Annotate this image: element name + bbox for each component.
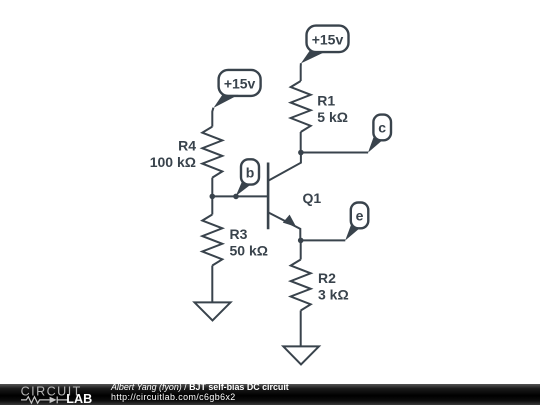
transistor Q1 (NPN) [268, 153, 301, 241]
resistor R3 [202, 215, 222, 266]
node junction (R4/R3/base) [210, 194, 216, 200]
node e junction (emitter) [298, 238, 304, 244]
wire: emitter node to e flag [301, 239, 346, 241]
wire: R1 bottom to collector node [300, 132, 302, 153]
resistor R4 [202, 127, 222, 178]
ground (left) [195, 302, 231, 320]
svg-text:e: e [356, 208, 364, 224]
net flag b [236, 159, 259, 196]
wire: emitter node down to R2 [300, 240, 302, 259]
svg-text:3 kΩ: 3 kΩ [318, 286, 349, 302]
power flag +15v (right, feeds R1) [301, 26, 349, 64]
label R2 3 kΩ [318, 270, 349, 303]
svg-text:100 kΩ: 100 kΩ [150, 154, 196, 170]
svg-text:R1: R1 [317, 92, 335, 108]
svg-text:LAB: LAB [66, 392, 92, 405]
wire: base node down to R3 [211, 196, 213, 214]
svg-text:+15v: +15v [312, 31, 344, 47]
footer bar [0, 384, 540, 405]
svg-text:b: b [246, 164, 255, 180]
CircuitLab logo [0, 384, 110, 405]
wire: +15v flag to R4 top [212, 108, 213, 127]
resistor R2 [291, 260, 311, 311]
wire: R3 bottom to ground [211, 266, 213, 303]
emitter arrowhead [283, 215, 296, 227]
power flag +15v (left, feeds R4) [214, 70, 261, 108]
svg-text:5 kΩ: 5 kΩ [317, 109, 348, 125]
net flag c [368, 115, 391, 153]
ground (right) [283, 346, 319, 364]
node b junction dot [233, 194, 239, 200]
svg-text:+15v: +15v [224, 75, 256, 91]
label R1 5 kΩ [317, 92, 348, 125]
wire: R4 bottom to base node [211, 178, 213, 197]
emitter lead [268, 212, 300, 240]
wire: collector node to c flag [301, 152, 368, 154]
wire: base row, node to transistor base [212, 195, 267, 197]
net flag e [345, 203, 368, 241]
label R3 50 kΩ [230, 226, 268, 259]
collector lead [268, 153, 301, 181]
label R4 100 kΩ [150, 137, 196, 170]
svg-text:R2: R2 [318, 270, 336, 286]
wire: +15v flag to R1 top [300, 63, 302, 81]
svg-text:R4: R4 [178, 137, 196, 153]
wire: R2 bottom to ground [300, 311, 302, 347]
svg-text:50 kΩ: 50 kΩ [230, 242, 268, 258]
svg-text:c: c [378, 120, 386, 136]
svg-text:Q1: Q1 [303, 190, 322, 206]
svg-text:R3: R3 [230, 226, 248, 242]
node c junction (collector) [298, 150, 304, 156]
resistor R1 [291, 81, 311, 132]
base bar [267, 163, 270, 230]
